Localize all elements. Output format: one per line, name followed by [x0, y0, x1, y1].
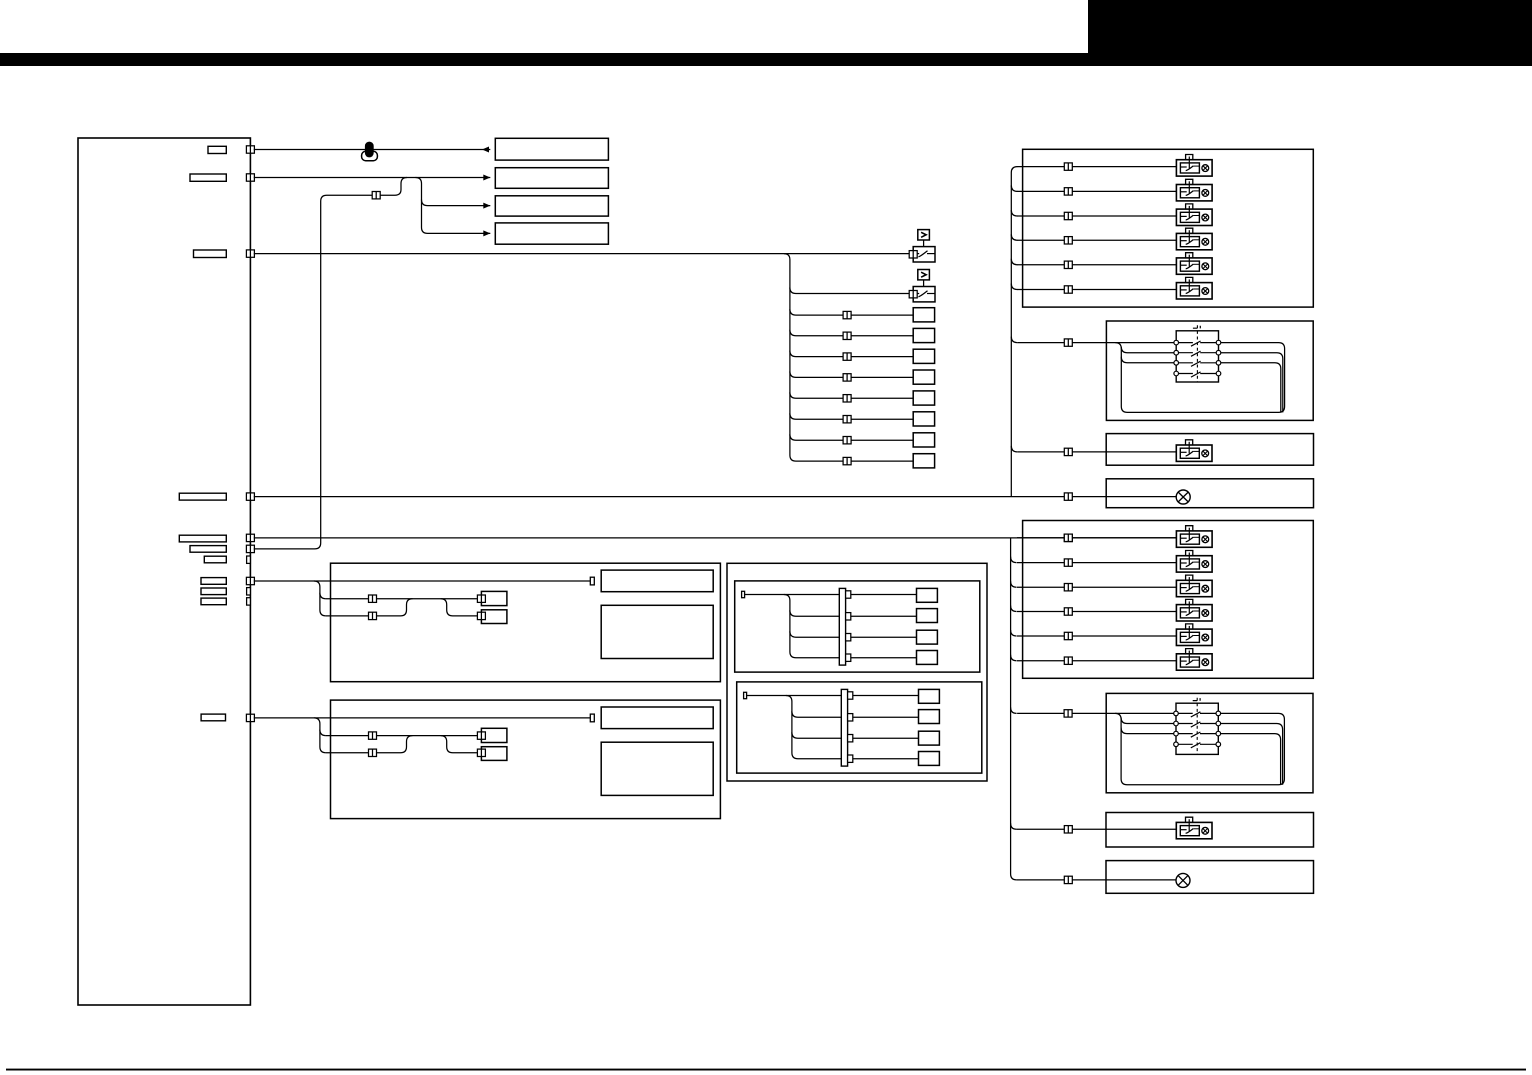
speaker box SP62 [481, 610, 507, 624]
terminal S2 right 1 [1216, 711, 1221, 716]
arrowhead W2 [483, 175, 490, 181]
arrowhead W2b [483, 203, 490, 209]
load box BC2-4 [919, 752, 940, 766]
wire branch N2-5 [1011, 655, 1017, 661]
load box BC1-1 [917, 588, 938, 602]
component box B3 [495, 196, 608, 216]
terminal S2 left 1 [1174, 711, 1179, 716]
load box B5-7 [913, 433, 934, 447]
wire WC2r1 [853, 695, 919, 697]
footer rule [6, 1069, 1526, 1071]
wire W6B [326, 599, 413, 616]
connector J3-2 [843, 332, 851, 339]
relay R2 [913, 287, 935, 302]
connector bar strip XC1 [839, 588, 845, 665]
title bar [0, 53, 1532, 66]
connector SP62 pin [477, 612, 485, 619]
connector JP2-3 [1064, 584, 1072, 591]
connector U1 pin P6 [246, 545, 254, 552]
wire W7C [441, 736, 478, 753]
bulb X1 [1176, 490, 1190, 504]
wire WP1-1 [1017, 166, 1176, 168]
junction block frame [727, 563, 987, 781]
connector U1 pin P3 [246, 250, 254, 257]
lamp unit LP1-4 [1176, 228, 1212, 250]
lamp unit LP1-3 [1176, 204, 1212, 226]
wire branch to relay R2 [790, 288, 909, 294]
connector J6B [369, 612, 377, 619]
wire WL2 [1017, 828, 1177, 830]
wire W6 node V1 [254, 178, 407, 549]
arrowhead W2a [483, 230, 490, 236]
wire WC22 [792, 711, 841, 717]
load box BC2-2 [919, 710, 940, 724]
pin label rect 6 [190, 546, 226, 553]
connector U1 pin P7 [246, 577, 254, 584]
connector U1 pin P5 [246, 534, 254, 541]
wire WS23r [1218, 734, 1280, 785]
switch S2 actuator line [1196, 698, 1198, 755]
load box B5-6 [913, 412, 934, 426]
component box B7b [601, 742, 713, 795]
wire W4 [254, 496, 1176, 498]
connector JL1 [1064, 448, 1072, 455]
connector JP2-5 [1064, 632, 1072, 639]
wire branch N1-3 [1011, 234, 1017, 240]
wire WC2r2 [853, 716, 919, 718]
wire bus N3 [784, 254, 913, 462]
connector J4 [1064, 493, 1072, 500]
connector U1 spare pin S2 [247, 588, 251, 595]
lamp panel frame PF2 [1023, 521, 1314, 679]
pin label rect 4 [179, 493, 226, 500]
wire W5 [254, 537, 1177, 539]
wire branch N3-4 [790, 371, 913, 377]
connector tab XC2-2 [848, 714, 853, 721]
wire branch N1-5 [1011, 284, 1017, 290]
wire WP2-5 [1017, 635, 1176, 637]
wire W62 drop [320, 593, 326, 616]
pin label rect 7 [204, 556, 226, 563]
switch S2 body [1176, 703, 1218, 754]
wire W7A [326, 735, 478, 737]
wire WL1 [1017, 451, 1176, 453]
connector tab XC2-4 [848, 755, 853, 762]
connector JP1-3 [1064, 212, 1072, 219]
wire branch N2-1 [1011, 557, 1017, 563]
lamp unit LP2-6 [1176, 649, 1212, 671]
speaker box SP72 [481, 747, 507, 761]
lamp unit LP2-3 [1176, 575, 1212, 597]
switch S2 pole 2 [1178, 722, 1216, 727]
bulb X2 [1176, 873, 1190, 887]
connector U1 spare pin S3 [247, 598, 251, 605]
connector SP71 pin [477, 732, 485, 739]
connector JP1-5 [1064, 261, 1072, 268]
wire WS23 [1121, 728, 1176, 734]
connector J3-8 [843, 457, 851, 464]
lamp unit LP1-1 [1176, 155, 1212, 177]
connector tab XC1-3 [846, 634, 851, 641]
connector bar strip XC2 [841, 689, 847, 766]
wire WP1-5 [1017, 264, 1176, 266]
load box B5-3 [913, 349, 934, 363]
wire W2b branch [422, 200, 491, 206]
wire W7B [326, 736, 413, 753]
lamp unit LP1-6 [1176, 277, 1212, 299]
wire WP2-3 [1017, 586, 1176, 588]
terminal S1 right 4 [1216, 371, 1221, 376]
wire branch N3-1 [790, 309, 913, 315]
connector U1 pin P4 [246, 493, 254, 500]
speaker unit frame G6 [331, 563, 721, 682]
wire branch N2-6 [1011, 707, 1017, 713]
wire WP1-2 [1017, 190, 1176, 192]
lamp frame LF2 [1106, 813, 1314, 848]
terminal S2 left 3 [1174, 731, 1179, 736]
switch S2 pole 1 [1178, 712, 1216, 717]
pin label rect 9 [201, 588, 226, 595]
connector U1 pin P1 [246, 146, 254, 153]
wire W2 [254, 177, 490, 179]
switch S1 pole 2 [1179, 351, 1217, 356]
speaker box SP61 [481, 591, 507, 605]
terminal S2 left 2 [1174, 721, 1179, 726]
connector JS1 [1064, 339, 1072, 346]
terminal bar T7 [590, 714, 594, 722]
wire branch N1-2 [1011, 210, 1017, 216]
switch S1 body [1176, 331, 1218, 382]
wire bus N1 [1011, 167, 1017, 497]
terminal S1 left 1 [1174, 340, 1179, 345]
terminal S2 left 4 [1174, 742, 1179, 747]
connector J3-6 [843, 416, 851, 423]
connector J7A [369, 732, 377, 739]
lamp unit LP2-5 [1176, 624, 1212, 646]
wire bus NC1 [784, 595, 839, 658]
connector J3-7 [843, 437, 851, 444]
connector relay R1 pin [909, 251, 917, 258]
connector JL2 [1064, 826, 1072, 833]
connector JP1-6 [1064, 286, 1072, 293]
lamp panel frame PF1 [1023, 149, 1314, 307]
wire WC20 [747, 695, 842, 697]
lamp unit LP2-1 [1176, 526, 1212, 548]
wire WP2-6 [1017, 660, 1176, 662]
wire W72 drop [320, 730, 326, 753]
terminal bar TC1 [742, 591, 745, 597]
switch S1 pole 1 [1179, 341, 1217, 346]
wire branch N1-7 [1011, 446, 1017, 452]
wire WX2 [1017, 879, 1177, 881]
load box B5-4 [913, 370, 934, 384]
connector tab XC1-2 [846, 613, 851, 620]
connector J6A [369, 595, 377, 602]
wire WP2-4 [1017, 611, 1176, 613]
wire W2a branch [416, 178, 491, 234]
connector SP72 pin [477, 749, 485, 756]
lamp unit LU2 [1176, 817, 1212, 839]
wire branch N1-1 [1011, 185, 1017, 191]
wire WS11 [1017, 342, 1176, 344]
wire WS2 loop [1115, 713, 1284, 784]
wire branch N3-5 [790, 392, 913, 398]
wire WC1r2 [851, 615, 917, 617]
wire WC23 [792, 732, 841, 738]
component box B6b [601, 605, 713, 658]
load box BC1-3 [917, 630, 938, 644]
connector U1 pin P8 [246, 714, 254, 721]
connector J3-3 [843, 353, 851, 360]
wire bus NC2 [786, 696, 841, 759]
wire branch N2-4 [1011, 630, 1017, 636]
connector J5 [1064, 534, 1072, 541]
pin label rect 11 [201, 714, 225, 721]
terminal bar T6 [590, 577, 594, 585]
terminal S1 right 3 [1216, 361, 1221, 366]
wire W70 [254, 717, 591, 719]
wire branch N2-2 [1011, 581, 1017, 587]
wire WC1r3 [851, 636, 917, 638]
connector JP1-4 [1064, 237, 1072, 244]
wire WP1-3 [1017, 215, 1176, 217]
switch S1 pole 3 [1179, 361, 1217, 366]
component box B6t [601, 570, 713, 592]
wire WS12r [1219, 353, 1283, 413]
lamp unit LP1-2 [1176, 179, 1212, 201]
lamp unit LP1-5 [1176, 253, 1212, 275]
lamp unit LP2-2 [1176, 551, 1212, 573]
connector JS2 [1064, 710, 1072, 717]
lamp frame LF1 [1106, 434, 1313, 466]
load box B5-8 [913, 454, 934, 468]
wire W60 [254, 580, 591, 582]
connector J1 [372, 192, 380, 199]
wire WS22 [1121, 718, 1176, 724]
wire WC1r4 [851, 657, 917, 659]
wire WC1r1 [851, 594, 917, 596]
wire WC12 [790, 610, 839, 616]
connector JP2-2 [1064, 559, 1072, 566]
connector tab XC2-1 [848, 692, 853, 699]
connector J3-4 [843, 374, 851, 381]
wire W1 [254, 149, 490, 151]
wire WP2-1 [1017, 537, 1176, 539]
load box B5-5 [913, 391, 934, 405]
bulb frame XF1 [1106, 479, 1313, 508]
wire WC2r4 [853, 758, 919, 760]
load box B5-1 [913, 308, 934, 322]
terminal S1 left 3 [1174, 361, 1179, 366]
connector JP1-1 [1064, 163, 1072, 170]
switch module frame SW2 [1106, 693, 1313, 792]
component box B2 [495, 168, 608, 189]
wire branch N2-3 [1011, 606, 1017, 612]
terminal S2 right 4 [1216, 742, 1221, 747]
bulb frame XF2 [1106, 861, 1314, 894]
wire bus N2 [1011, 538, 1017, 880]
relay R1 [913, 247, 935, 262]
wire branch N1-6 [1011, 337, 1017, 343]
terminal S1 left 4 [1174, 371, 1179, 376]
comb unit frame C2 [737, 682, 982, 773]
switch module frame SW1 [1106, 321, 1313, 420]
speaker unit frame G7 [331, 700, 721, 819]
connector JP2-6 [1064, 657, 1072, 664]
pin label rect 10 [201, 598, 226, 605]
wire WS22r [1218, 724, 1282, 785]
wire relay R2 control link [923, 280, 925, 290]
load box BC1-4 [917, 651, 938, 665]
wire WS13r [1219, 363, 1281, 413]
load box BC2-3 [919, 731, 940, 745]
terminal S2 right 2 [1216, 721, 1221, 726]
connector U1 spare pin S1 [247, 556, 251, 563]
load box BC2-1 [919, 689, 940, 703]
connector J3-5 [843, 395, 851, 402]
pin label rect 5 [179, 535, 226, 542]
wire branch N3-7 [790, 434, 913, 440]
wire WC13 [790, 631, 839, 637]
wire WP2-2 [1017, 562, 1176, 564]
component box B1 [495, 138, 608, 160]
wire WC10 [745, 594, 840, 596]
arrowhead W1 [482, 147, 489, 153]
comb unit frame C1 [735, 581, 980, 672]
terminal S2 right 3 [1216, 731, 1221, 736]
wire WS1 loop [1115, 343, 1284, 413]
connector JP1-2 [1064, 188, 1072, 195]
terminal S1 left 2 [1174, 350, 1179, 355]
lamp unit LU1 [1176, 440, 1212, 462]
terminal S1 right 2 [1216, 350, 1221, 355]
connector tab XC2-3 [848, 735, 853, 742]
terminal bar TC2 [744, 692, 747, 698]
wire relay R1 control link [923, 240, 925, 250]
connector J3-1 [843, 311, 851, 318]
wire WP1-6 [1017, 289, 1176, 291]
switch S1 actuator line [1196, 325, 1198, 382]
wire W3 [254, 253, 909, 255]
switch S2 pole 3 [1178, 732, 1216, 737]
wire branch N3-6 [790, 413, 913, 419]
switch S1 actuator flag [1193, 326, 1200, 329]
wire branch N3-3 [790, 351, 913, 357]
load box BC1-2 [917, 609, 938, 623]
pin label rect 2 [190, 174, 226, 181]
connector JX2 [1064, 876, 1072, 883]
wire W6A [326, 598, 478, 600]
pin label rect 8 [201, 578, 226, 585]
title block [1088, 0, 1532, 66]
speaker box SP71 [481, 728, 507, 742]
component box B4 [495, 223, 608, 244]
connector relay R2 pin [909, 291, 917, 298]
wire W6C [441, 599, 478, 616]
switch S2 pole 4 [1178, 743, 1216, 748]
control unit box U1 [78, 138, 250, 1005]
load box B5-2 [913, 328, 934, 342]
connector tab XC1-1 [846, 591, 851, 598]
lamp unit LP2-4 [1176, 599, 1212, 621]
noise filter F1 [362, 142, 378, 161]
pin label rect 1 [208, 146, 226, 153]
pin label rect 3 [194, 250, 227, 258]
wire W61 drop [314, 581, 326, 599]
wire branch N3-2 [790, 330, 913, 336]
connector J7B [369, 749, 377, 756]
wire WC2r3 [853, 737, 919, 739]
switch S1 pole 4 [1179, 372, 1217, 377]
diode box D1 [918, 230, 930, 240]
terminal S1 right 1 [1216, 340, 1221, 345]
connector JP2-1 [1064, 534, 1072, 541]
wire WS21 [1017, 712, 1176, 714]
wire W71 drop [314, 718, 326, 736]
switch S2 actuator flag [1193, 698, 1200, 701]
connector tab XC1-4 [846, 654, 851, 661]
connector U1 pin P2 [246, 174, 254, 181]
wire branch N2-7 [1011, 823, 1017, 829]
wire WP1-4 [1017, 239, 1176, 241]
wire branch N1-4 [1011, 259, 1017, 265]
connector JP2-4 [1064, 608, 1072, 615]
wire WS13 [1121, 357, 1176, 363]
wire WS12 [1121, 347, 1176, 353]
connector SP61 pin [477, 595, 485, 602]
diode box D2 [918, 270, 930, 280]
component box B7t [601, 707, 713, 729]
